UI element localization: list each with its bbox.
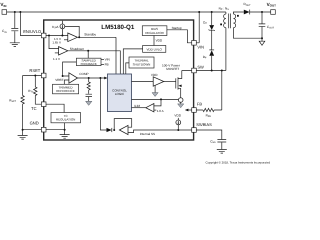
svg-text:COMP: COMP (79, 72, 88, 76)
resistor RSET (21, 76, 24, 130)
resistor RFB (196, 108, 222, 111)
wire to shutdown comparator (49, 36, 59, 49)
block control logic (108, 74, 132, 112)
wire gate (164, 81, 176, 83)
block trimmed reference (53, 84, 79, 94)
node VIN rail junction (198, 11, 200, 13)
wire CSS branch (196, 130, 222, 139)
wire EN/UVLO feed (20, 12, 41, 36)
ground gate driver (154, 85, 156, 92)
svg-text:GND: GND (30, 120, 39, 125)
wire VDD link (153, 36, 155, 46)
ground CSS (217, 150, 227, 154)
svg-text:LM5180-Q1: LM5180-Q1 (101, 24, 135, 31)
svg-text:TC: TC (31, 106, 37, 111)
current source 8uA (61, 21, 63, 36)
pin TC (41, 102, 46, 107)
op-amp SS buffer (119, 125, 128, 134)
node shutdown-SF junction (87, 50, 89, 52)
node standby/hyst junction (78, 36, 80, 38)
svg-text:MOSFET: MOSFET (166, 67, 179, 71)
IC outline U1 LM5180-Q1 (44, 20, 194, 140)
wire standby to 8uA control (65, 26, 79, 37)
node sense branch (160, 98, 162, 100)
node DF junction (211, 70, 213, 72)
wire FB internal arrow (188, 109, 192, 111)
pin SW (192, 68, 197, 73)
svg-text:1.0 A: 1.0 A (157, 109, 164, 113)
svg-text:VDD: VDD (156, 39, 163, 43)
svg-text:LOGIC: LOGIC (115, 92, 125, 96)
ground comp (internal) (86, 101, 92, 105)
wire startup (167, 30, 192, 43)
svg-text:8 µA: 8 µA (52, 25, 59, 29)
block sampled feedback (76, 58, 101, 65)
wire VREF (64, 80, 69, 84)
node 8uA branch (61, 35, 63, 37)
wire thermal to control logic (126, 63, 129, 74)
pin EN/UVLO (41, 33, 46, 38)
node secondary ground junction (261, 37, 263, 39)
svg-text:FB: FB (105, 63, 109, 67)
block VDD UVLO (143, 46, 166, 53)
svg-text:VDD: VDD (174, 113, 181, 117)
svg-text:EN/UVLO: EN/UVLO (23, 29, 41, 34)
svg-text:Copyright © 2018, Texas Instru: Copyright © 2018, Texas Instruments Inco… (206, 161, 271, 165)
winding primary (224, 12, 226, 71)
wire Standby (77, 37, 116, 74)
svg-text:1.65 V: 1.65 V (52, 40, 61, 44)
node RFB junction (221, 70, 223, 72)
wire EN internal (46, 35, 68, 37)
node COUT junction (261, 11, 263, 13)
wire VIN stub (101, 58, 104, 60)
capacitor COUT (261, 12, 263, 24)
ground CIN (10, 43, 20, 47)
svg-text:Shutdown: Shutdown (70, 47, 84, 51)
svg-text:REGULATOR: REGULATOR (145, 31, 164, 35)
wire to sampled feedback (87, 51, 89, 58)
op-amp EA error amplifier (69, 73, 78, 83)
node DZ rail junction (211, 11, 213, 13)
wire ILIM (132, 107, 146, 109)
wire SS buffer feedback loop (114, 119, 132, 130)
current source SS charge (177, 118, 179, 130)
svg-text:VIN: VIN (197, 44, 204, 49)
diode DOUT rectifier (244, 10, 250, 15)
wire internal SS (128, 130, 192, 133)
svg-text:REFERENCE: REFERENCE (56, 89, 75, 93)
VOUT output port square (271, 10, 276, 15)
wire gate drive input (132, 81, 154, 83)
node EN comp2 branch (48, 35, 50, 37)
wire current sense (132, 98, 179, 100)
ground power source (internal) (178, 104, 184, 108)
comparator U2 standby (68, 33, 78, 42)
svg-text:SW: SW (197, 64, 204, 69)
wire VIN pin to rail (196, 12, 199, 43)
svg-text:VOUT: VOUT (267, 2, 277, 8)
svg-text:REGULATION: REGULATION (56, 118, 75, 122)
node RSET ground junction (22, 129, 24, 131)
current sense element (178, 98, 183, 103)
svg-text:VIN: VIN (105, 58, 110, 62)
wire CIN branch (14, 12, 16, 28)
node CIN junction (14, 11, 16, 13)
pin VIN (192, 41, 197, 46)
block TC regulation (51, 113, 81, 123)
wire output rail (250, 11, 271, 13)
pin RSET (41, 73, 46, 78)
ground GND external (22, 130, 24, 136)
wire TC to regulation (46, 104, 64, 112)
svg-text:SHUTDOWN: SHUTDOWN (133, 63, 151, 67)
svg-text:SS/BIAS: SS/BIAS (196, 122, 212, 127)
wire sense to ILIM comparator (154, 99, 161, 106)
svg-text:VDD UVLO: VDD UVLO (147, 48, 163, 52)
pin SS/BIAS (192, 128, 197, 133)
wire GND to RSET bottom (23, 129, 42, 131)
winding secondary (233, 12, 262, 38)
svg-text:VREF: VREF (55, 78, 63, 82)
comparator U3 shutdown (59, 47, 68, 55)
comparator U4 ILIM (146, 104, 154, 112)
node primary phase dot (220, 24, 222, 26)
wire COMP (78, 77, 105, 79)
node internal gnd junction (64, 129, 66, 131)
pin FB (192, 108, 197, 113)
svg-text:VDD: VDD (151, 73, 158, 77)
op-amp gate driver (153, 77, 164, 86)
resistor RTC (34, 76, 42, 105)
node SS diode junction (113, 129, 115, 131)
svg-text:Standby: Standby (84, 32, 96, 36)
node secondary phase dot (237, 15, 239, 17)
block thermal shutdown (129, 57, 154, 68)
node comp RC branch (88, 77, 90, 79)
svg-text:ILIM: ILIM (134, 104, 140, 108)
block bias regulator (142, 26, 167, 36)
capacitor CIN (11, 28, 18, 30)
pin GND (41, 127, 46, 132)
wire VDD UVLO to control logic (123, 49, 142, 74)
wire arrow into control logic (104, 77, 107, 80)
svg-text:RSET: RSET (29, 68, 40, 73)
wire SS clamp line (100, 78, 106, 130)
resistor Rcomp (87, 78, 90, 94)
svg-text:VIN: VIN (0, 2, 6, 8)
wire Shutdown (68, 51, 121, 74)
svg-text:FB: FB (197, 102, 202, 107)
capacitor CSS (217, 140, 226, 142)
diode DF blocking (209, 49, 214, 51)
wire top VIN rail (7, 11, 226, 13)
svg-text:Startup: Startup (172, 26, 182, 30)
wire GND internal rail (46, 129, 65, 131)
diode SS clamp (107, 128, 112, 132)
svg-text:FEEDBACK: FEEDBACK (81, 62, 97, 66)
ground output (open triangle) (261, 38, 263, 41)
diode DZ zener clamp (211, 12, 213, 25)
node EA input elbow (62, 75, 64, 77)
wire RSET (23, 75, 42, 77)
core lines (229, 14, 231, 29)
VIN input port square (2, 10, 7, 15)
node SS source junction (177, 129, 179, 131)
capacitor Ccomp (86, 94, 93, 96)
wire DZ to DF (211, 31, 213, 50)
wire RFB riser to SW (221, 71, 223, 111)
wire SW node (196, 70, 226, 72)
svg-text:1.1 V: 1.1 V (53, 57, 60, 61)
ground internal (64, 123, 66, 135)
node RTC junction (34, 75, 36, 77)
node comp SS branch (99, 77, 101, 79)
node EN branch junction (19, 11, 21, 13)
wire FB stub (101, 63, 104, 65)
svg-text:Internal SS: Internal SS (140, 132, 155, 136)
wire SF output to EA (63, 62, 77, 76)
